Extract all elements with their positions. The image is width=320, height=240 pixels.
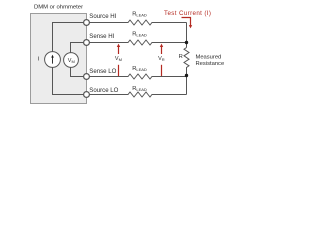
svg-text:Source LO: Source LO bbox=[89, 87, 118, 94]
svg-text:Test Current (I): Test Current (I) bbox=[164, 10, 211, 17]
current source I bbox=[45, 52, 61, 68]
wire: bottom node down to Source LO corner bbox=[186, 75, 188, 95]
arrow: VM sense voltage (up) bbox=[118, 47, 120, 55]
wire: Sense HI line with lead resistor bbox=[89, 40, 186, 45]
svg-text:Sense HI: Sense HI bbox=[89, 33, 114, 40]
terminal Source LO bbox=[84, 92, 90, 98]
svg-text:Source HI: Source HI bbox=[89, 13, 116, 20]
svg-text:DMM or ohmmeter: DMM or ohmmeter bbox=[34, 5, 83, 11]
wire: Sense LO line with lead resistor bbox=[89, 74, 186, 79]
arrow: VR resistor voltage (up) bbox=[161, 47, 163, 55]
svg-text:RLEAD: RLEAD bbox=[132, 31, 147, 37]
wire: VM red lower segment bbox=[118, 65, 120, 76]
wire: current source bottom to Source LO terminal bbox=[53, 68, 84, 95]
arrow: test current elbow bbox=[182, 18, 191, 26]
terminal Source HI bbox=[84, 20, 90, 26]
svg-text:R: R bbox=[179, 54, 183, 60]
svg-text:VM: VM bbox=[115, 56, 122, 62]
svg-text:RLEAD: RLEAD bbox=[132, 86, 147, 92]
DMM instrument box bbox=[31, 14, 87, 104]
svg-text:VR: VR bbox=[158, 56, 165, 62]
wire: Source LO line with lead resistor bbox=[89, 92, 186, 97]
svg-text:Measured: Measured bbox=[196, 55, 222, 61]
terminal Sense HI bbox=[84, 40, 90, 46]
voltmeter VM bbox=[64, 53, 79, 68]
svg-text:RLEAD: RLEAD bbox=[132, 11, 147, 17]
node: junction bottom (Sense LO joins R bottom) bbox=[185, 74, 188, 77]
wire: right vertical from Source HI corner down to top node bbox=[186, 23, 188, 48]
wire: voltmeter bottom to Sense LO terminal bbox=[71, 67, 84, 76]
resistor R measured resistance (vertical zigzag) bbox=[184, 48, 189, 76]
terminal Sense LO bbox=[84, 74, 90, 80]
svg-text:Sense LO: Sense LO bbox=[89, 68, 116, 75]
svg-text:RLEAD: RLEAD bbox=[132, 66, 147, 72]
svg-text:Resistance: Resistance bbox=[196, 61, 225, 67]
node: junction top (Sense HI joins R top) bbox=[185, 41, 188, 44]
wire: current source top to Source HI terminal bbox=[53, 23, 84, 52]
wire: voltmeter top to Sense HI terminal bbox=[71, 43, 84, 53]
wire: Source HI line with lead resistor bbox=[89, 20, 186, 25]
svg-text:VM: VM bbox=[68, 58, 75, 64]
wire: VR red lower segment bbox=[161, 65, 163, 76]
